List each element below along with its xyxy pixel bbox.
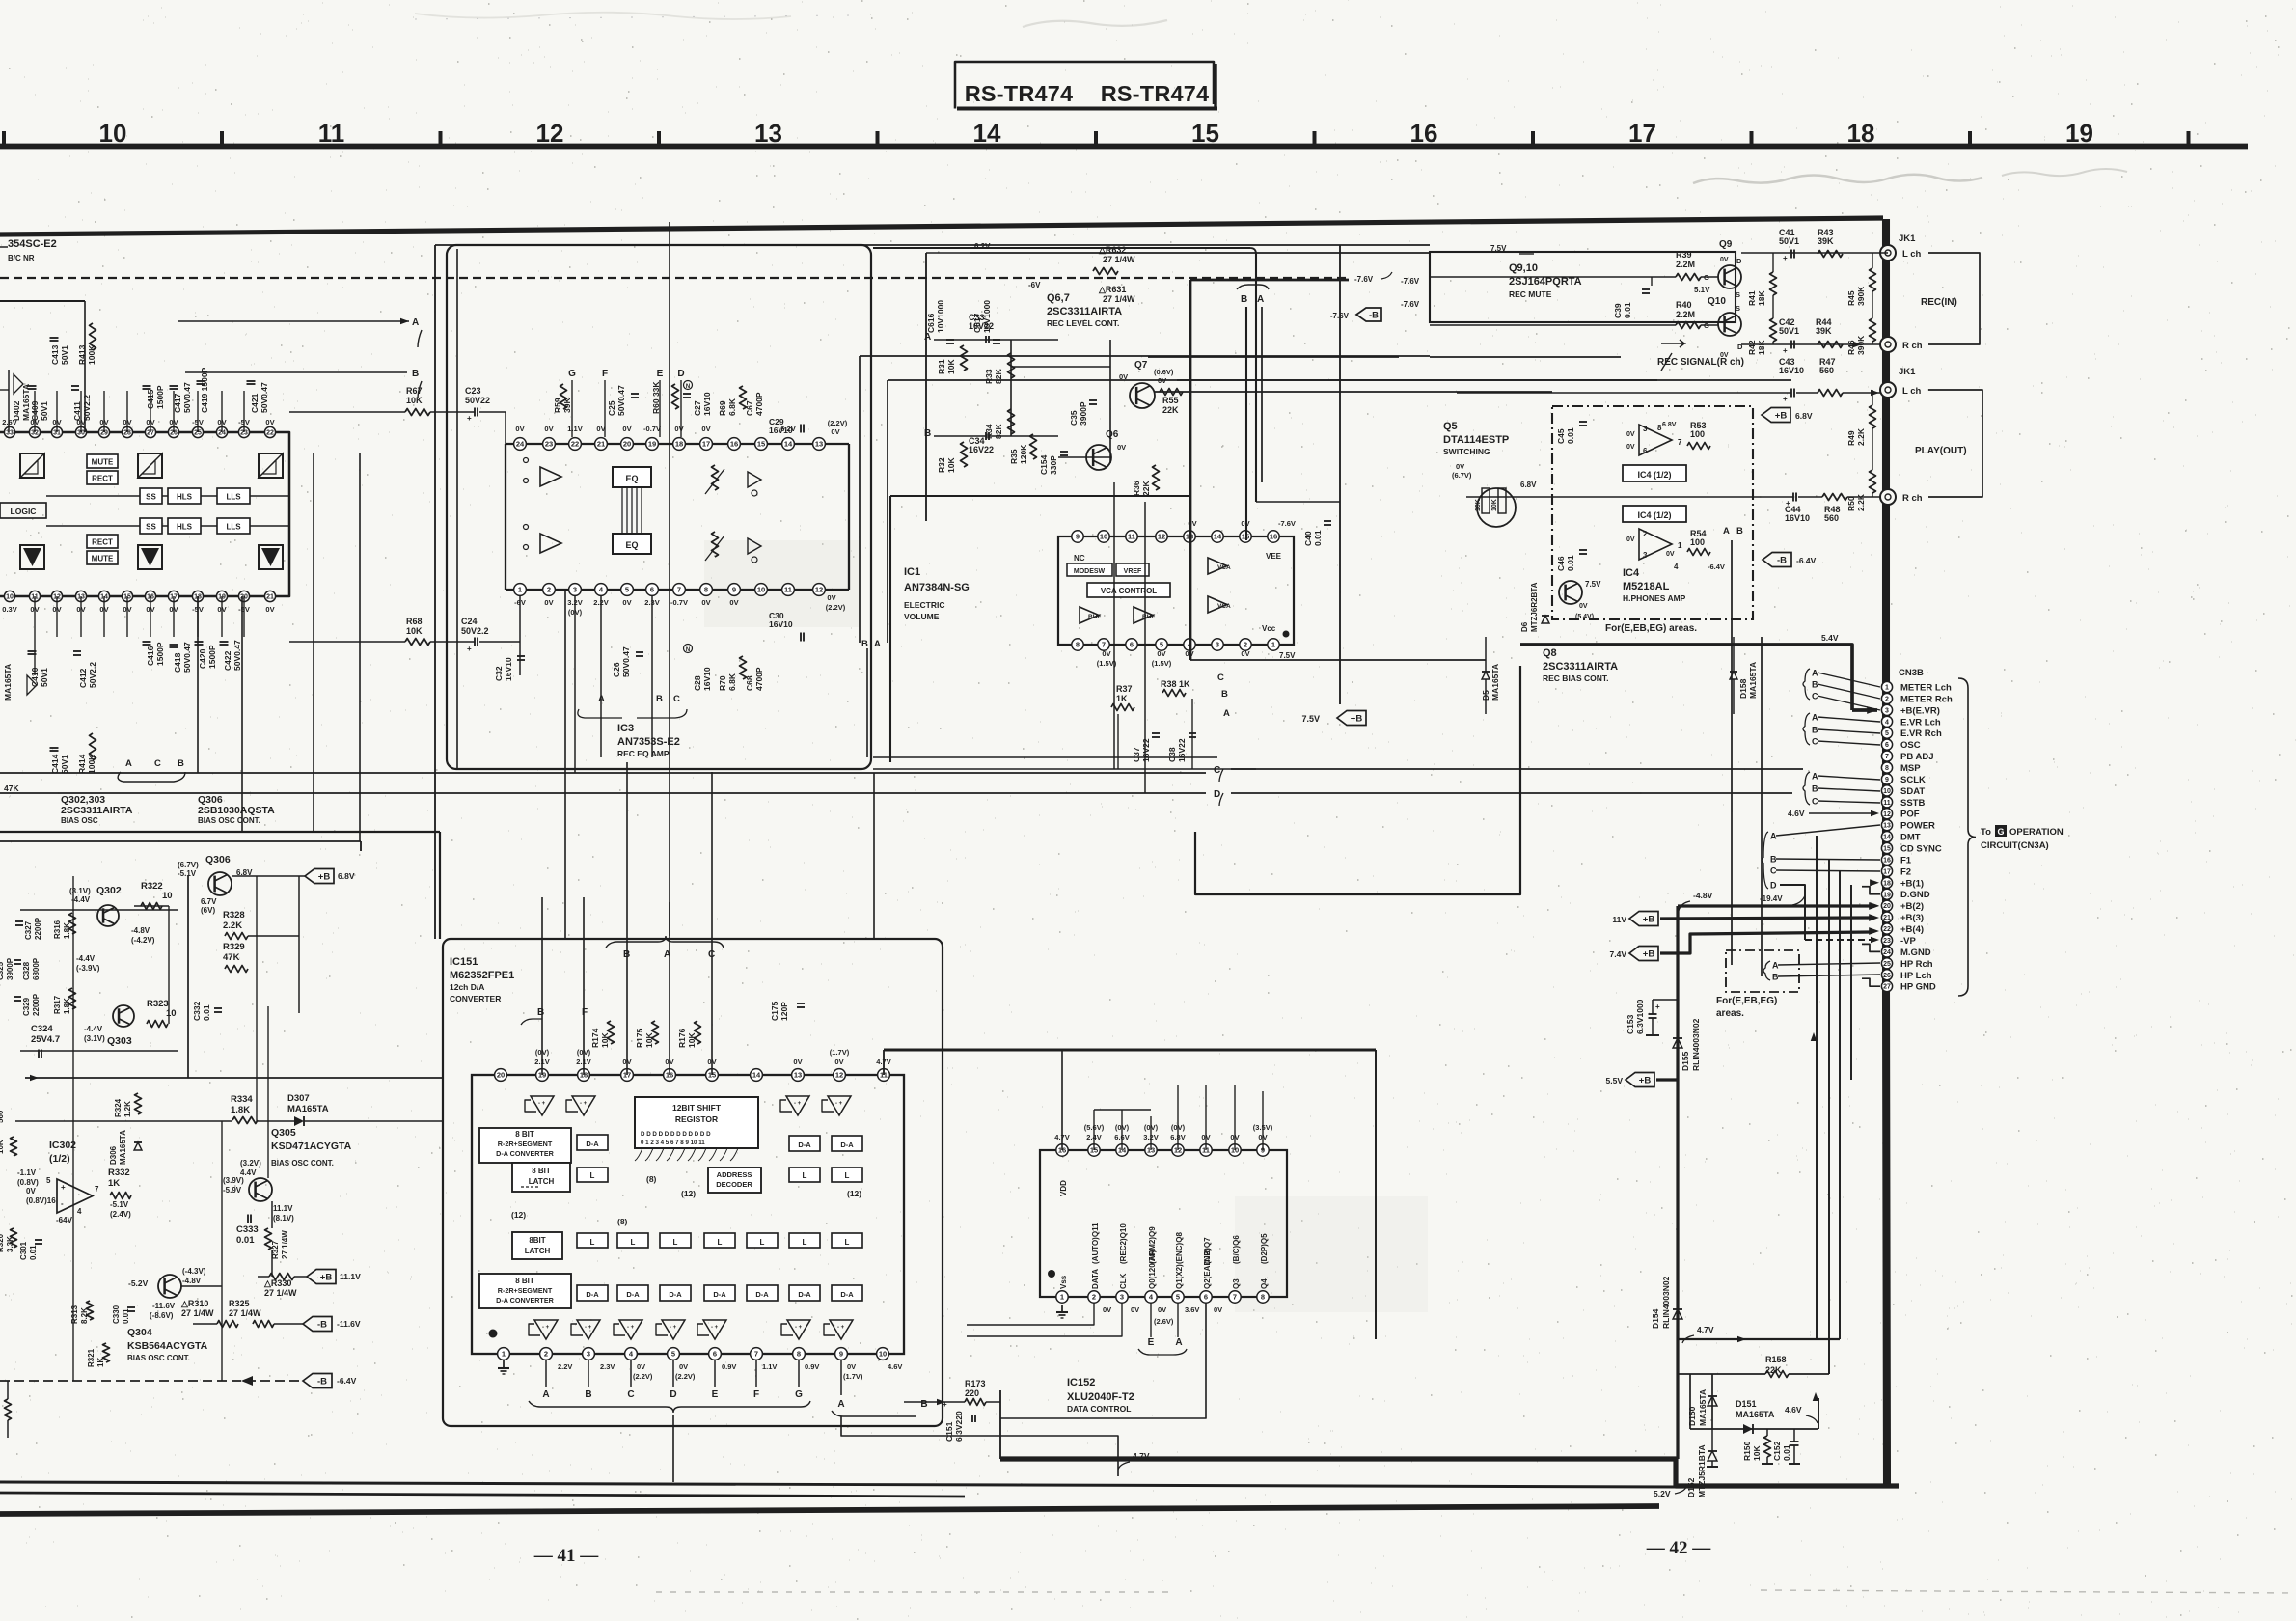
svg-text:+: +	[1786, 499, 1790, 508]
svg-text:0V: 0V	[701, 598, 710, 607]
svg-text:7: 7	[1678, 438, 1682, 447]
svg-text:A: A	[1223, 708, 1230, 719]
svg-text:C328: C328	[22, 961, 31, 980]
svg-text:-64V: -64V	[56, 1216, 73, 1224]
svg-text:RS-TR474: RS-TR474	[1101, 81, 1210, 106]
svg-text:+B(2): +B(2)	[1900, 901, 1924, 912]
svg-text:A: A	[412, 317, 419, 328]
svg-text:17: 17	[1628, 119, 1656, 148]
svg-text:4700P: 4700P	[754, 667, 764, 691]
svg-text:MUTE: MUTE	[92, 458, 114, 467]
svg-text:0V: 0V	[1579, 603, 1588, 610]
svg-text:20: 20	[1883, 903, 1891, 910]
svg-text:DATA: DATA	[1091, 1269, 1100, 1289]
svg-text:E.VR Lch: E.VR Lch	[1900, 717, 1941, 728]
svg-text:MA165TA: MA165TA	[3, 664, 13, 701]
svg-text:16V22: 16V22	[1177, 738, 1187, 762]
svg-text:-0.7V: -0.7V	[670, 598, 688, 607]
svg-text:SS: SS	[146, 523, 156, 532]
svg-text:(2.2V): (2.2V)	[633, 1372, 653, 1381]
svg-text:BIAS OSC CONT.: BIAS OSC CONT.	[127, 1354, 190, 1362]
svg-text:BIAS OSC: BIAS OSC	[61, 816, 98, 825]
svg-text:50V1: 50V1	[1779, 326, 1799, 336]
svg-text:12: 12	[1158, 533, 1165, 541]
svg-text:6.8V: 6.8V	[1795, 411, 1813, 421]
svg-text:Q6,7: Q6,7	[1047, 292, 1070, 304]
svg-text:C: C	[154, 758, 161, 769]
svg-text:(6V): (6V)	[201, 906, 215, 915]
svg-text:IC152: IC152	[1067, 1377, 1095, 1388]
svg-text:+: +	[467, 645, 472, 653]
svg-text:-6.4V: -6.4V	[1796, 556, 1817, 565]
svg-text:D-A: D-A	[840, 1290, 854, 1299]
svg-text:R ch: R ch	[1902, 493, 1923, 504]
svg-text:5.2V: 5.2V	[1654, 1489, 1671, 1498]
svg-text:10K: 10K	[644, 1032, 654, 1048]
svg-text:CIRCUIT(CN3A): CIRCUIT(CN3A)	[1981, 840, 2049, 851]
svg-text:— 41 —: — 41 —	[533, 1546, 600, 1566]
svg-text:(3.1V): (3.1V)	[84, 1034, 105, 1043]
svg-text:10K: 10K	[687, 1032, 697, 1048]
svg-text:HP Rch: HP Rch	[1900, 959, 1933, 970]
svg-text:LLS: LLS	[226, 523, 241, 532]
svg-text:6: 6	[1885, 742, 1889, 749]
svg-text:KSD471ACYGTA: KSD471ACYGTA	[271, 1140, 352, 1152]
svg-text:0V: 0V	[515, 425, 524, 433]
svg-text:D307: D307	[287, 1093, 310, 1104]
svg-text:C154: C154	[1039, 454, 1049, 475]
svg-text:B: B	[1221, 689, 1228, 700]
svg-text:+B: +B	[1643, 915, 1655, 925]
svg-text:16V10: 16V10	[702, 667, 712, 691]
svg-text:14: 14	[784, 440, 793, 449]
svg-text:S: S	[1736, 304, 1740, 313]
svg-text:△R310: △R310	[180, 1299, 208, 1308]
svg-text:39K: 39K	[1818, 236, 1834, 246]
svg-text:16V10: 16V10	[769, 619, 793, 629]
svg-text:1K: 1K	[108, 1178, 120, 1189]
svg-text:RECT: RECT	[92, 538, 113, 547]
svg-text:2: 2	[547, 586, 551, 594]
svg-text:G: G	[1997, 827, 2004, 837]
svg-text:(8): (8)	[646, 1174, 657, 1184]
svg-text:-7.6V: -7.6V	[1278, 519, 1296, 528]
svg-text:C414: C414	[50, 754, 60, 774]
svg-text:50V1: 50V1	[1779, 236, 1799, 246]
svg-text:8: 8	[704, 586, 708, 594]
svg-text:7.5V: 7.5V	[1279, 651, 1296, 660]
svg-text:F: F	[753, 1389, 759, 1400]
svg-text:HLS: HLS	[177, 493, 193, 502]
svg-text:VDD: VDD	[1059, 1180, 1068, 1196]
svg-text:B: B	[412, 369, 419, 379]
svg-text:CLK: CLK	[1119, 1273, 1128, 1289]
svg-text:C420: C420	[198, 648, 207, 669]
svg-text:3: 3	[1643, 425, 1648, 433]
svg-text:9: 9	[1076, 533, 1080, 541]
svg-text:L: L	[631, 1238, 636, 1247]
svg-text:-5.1V: -5.1V	[110, 1200, 129, 1209]
svg-text:D155: D155	[1681, 1051, 1690, 1071]
svg-text:HLS: HLS	[177, 523, 193, 532]
svg-text:R324: R324	[114, 1098, 123, 1117]
svg-text:-4.8V: -4.8V	[182, 1277, 202, 1285]
svg-text:50V22: 50V22	[465, 396, 490, 405]
svg-text:CONVERTER: CONVERTER	[450, 994, 501, 1003]
svg-text:B: B	[920, 1399, 927, 1410]
svg-text:D-A: D-A	[840, 1140, 854, 1149]
svg-text:6.2V: 6.2V	[974, 242, 991, 251]
svg-text:50V0.47: 50V0.47	[616, 385, 626, 416]
svg-text:- +: - +	[794, 1101, 802, 1107]
svg-text:0V: 0V	[1102, 649, 1110, 658]
svg-text:390K: 390K	[1856, 286, 1866, 306]
svg-text:-11.6V: -11.6V	[152, 1302, 176, 1310]
svg-text:-19.4V: -19.4V	[1760, 894, 1783, 903]
svg-text:0.01: 0.01	[1623, 302, 1632, 318]
svg-text:21: 21	[1883, 915, 1891, 921]
svg-text:C333: C333	[236, 1224, 259, 1235]
svg-text:OSC: OSC	[1900, 740, 1921, 751]
svg-text:3: 3	[573, 586, 577, 594]
svg-text:26: 26	[1883, 973, 1891, 979]
svg-text:IC1: IC1	[904, 566, 920, 578]
svg-text:4.6V: 4.6V	[1785, 1405, 1802, 1415]
svg-text:M62352FPE1: M62352FPE1	[450, 970, 514, 981]
svg-text:2SC3311AIRTA: 2SC3311AIRTA	[1047, 306, 1122, 317]
svg-text:A: A	[1175, 1337, 1182, 1348]
svg-text:DECODER: DECODER	[716, 1180, 752, 1189]
svg-text:8BIT: 8BIT	[529, 1236, 545, 1245]
svg-text:(0.8V): (0.8V)	[17, 1178, 39, 1187]
svg-text:11V: 11V	[1612, 915, 1626, 924]
svg-text:11: 11	[784, 586, 792, 594]
svg-text:R321: R321	[87, 1348, 96, 1367]
svg-text:Q4: Q4	[1260, 1278, 1269, 1289]
svg-text:E: E	[712, 1389, 719, 1400]
svg-text:R49: R49	[1846, 430, 1856, 446]
svg-text:-B: -B	[1369, 311, 1379, 321]
svg-text:50V0.47: 50V0.47	[182, 382, 192, 413]
svg-text:11: 11	[318, 119, 345, 148]
svg-text:AN7353S-E2: AN7353S-E2	[617, 736, 680, 748]
svg-text:(6.7V): (6.7V)	[178, 861, 199, 869]
svg-text:0.01: 0.01	[1313, 530, 1323, 546]
svg-text:- +: - +	[538, 1101, 546, 1107]
svg-text:D150: D150	[1687, 1406, 1697, 1426]
svg-text:10: 10	[6, 594, 14, 601]
svg-text:5.5V: 5.5V	[1606, 1076, 1624, 1085]
svg-text:2SC3311AIRTA: 2SC3311AIRTA	[1543, 661, 1618, 673]
svg-text:7: 7	[1885, 754, 1889, 760]
svg-text:- +: - +	[627, 1325, 635, 1331]
svg-text:REC(IN): REC(IN)	[1921, 297, 1957, 308]
svg-text:(5.4V): (5.4V)	[1575, 614, 1594, 620]
svg-text:D-A CONVERTER: D-A CONVERTER	[496, 1296, 554, 1305]
svg-text:0V: 0V	[265, 418, 274, 426]
svg-text:6.3V1000: 6.3V1000	[1635, 999, 1645, 1034]
svg-text:16V22: 16V22	[1141, 738, 1151, 762]
svg-text:-0.7V: -0.7V	[643, 425, 661, 433]
svg-text:B: B	[1241, 294, 1247, 305]
svg-text:11.1V: 11.1V	[340, 1272, 361, 1281]
svg-text:2.2K: 2.2K	[1856, 493, 1866, 511]
svg-text:R38 1K: R38 1K	[1161, 679, 1190, 689]
svg-text:IC4: IC4	[1623, 567, 1640, 579]
svg-text:10: 10	[99, 119, 127, 148]
svg-text:33: 33	[6, 430, 14, 437]
svg-text:R329: R329	[223, 942, 245, 952]
svg-text:10K: 10K	[1752, 1445, 1762, 1461]
svg-text:16V10: 16V10	[1785, 513, 1810, 523]
svg-text:C: C	[1217, 673, 1224, 683]
svg-text:D-A CONVERTER: D-A CONVERTER	[496, 1149, 554, 1158]
svg-text:A: A	[1723, 526, 1730, 536]
svg-text:-: -	[61, 1199, 64, 1208]
svg-text:1: 1	[1885, 685, 1889, 692]
svg-text:Vcc: Vcc	[1262, 624, 1276, 633]
svg-text:3900P: 3900P	[6, 957, 14, 980]
svg-text:EQ: EQ	[625, 474, 638, 483]
svg-text:8: 8	[797, 1350, 801, 1359]
svg-text:L: L	[803, 1171, 807, 1180]
svg-text:1500P: 1500P	[207, 645, 217, 669]
svg-text:+B: +B	[318, 872, 331, 883]
svg-text:16V10: 16V10	[769, 426, 793, 435]
svg-text:- +: - +	[670, 1325, 677, 1331]
svg-text:7: 7	[754, 1350, 758, 1359]
svg-text:0V: 0V	[637, 1362, 645, 1371]
svg-text:D-A: D-A	[669, 1290, 682, 1299]
svg-text:MA165TA: MA165TA	[287, 1104, 329, 1114]
svg-text:C413: C413	[50, 344, 60, 365]
svg-text:19: 19	[1883, 892, 1891, 898]
svg-text:C418: C418	[173, 652, 182, 673]
svg-text:220: 220	[965, 1388, 979, 1398]
svg-text:3: 3	[1643, 551, 1648, 560]
svg-text:12: 12	[1883, 811, 1891, 818]
svg-text:17: 17	[1883, 868, 1891, 875]
svg-text:VCA: VCA	[1217, 564, 1231, 571]
svg-text:+B: +B	[320, 1273, 333, 1283]
svg-text:0V: 0V	[679, 1362, 688, 1371]
svg-text:Q2(EADJ2): Q2(EADJ2)	[1203, 1249, 1212, 1289]
svg-text:(REC2)Q10: (REC2)Q10	[1119, 1223, 1128, 1264]
svg-text:F2: F2	[1900, 866, 1911, 877]
svg-text:B: B	[178, 758, 184, 769]
svg-text:4.6V: 4.6V	[888, 1362, 902, 1371]
svg-text:RECT: RECT	[92, 475, 113, 483]
svg-text:10: 10	[757, 586, 765, 594]
svg-text:C24: C24	[461, 617, 478, 626]
svg-text:(0.6V): (0.6V)	[1154, 368, 1174, 376]
svg-text:L ch: L ch	[1902, 386, 1922, 397]
svg-text:17: 17	[702, 440, 710, 449]
svg-text:50V2.2: 50V2.2	[82, 395, 92, 421]
svg-text:(2.2V): (2.2V)	[828, 419, 848, 427]
svg-text:IC4 (1/2): IC4 (1/2)	[1637, 510, 1671, 520]
svg-text:F: F	[582, 1007, 588, 1018]
svg-text:15: 15	[1883, 846, 1891, 853]
svg-text:22: 22	[571, 440, 579, 449]
svg-text:C38: C38	[1167, 747, 1177, 762]
svg-text:S: S	[1736, 290, 1740, 299]
svg-text:For(E,EB,EG): For(E,EB,EG)	[1716, 996, 1777, 1006]
svg-text:C329: C329	[22, 997, 31, 1016]
svg-text:R ch: R ch	[1902, 341, 1923, 351]
svg-text:R-2R+SEGMENT: R-2R+SEGMENT	[498, 1140, 553, 1148]
svg-text:1.2K: 1.2K	[123, 1101, 132, 1117]
svg-text:13: 13	[794, 1071, 802, 1080]
svg-text:(2.2V): (2.2V)	[675, 1372, 696, 1381]
svg-text:M.GND: M.GND	[1900, 948, 1931, 958]
svg-text:(B/C)Q6: (B/C)Q6	[1232, 1235, 1241, 1264]
svg-text:25V4.7: 25V4.7	[31, 1034, 60, 1045]
svg-text:SSTB: SSTB	[1900, 798, 1925, 809]
svg-text:0.9V: 0.9V	[805, 1362, 819, 1371]
svg-text:EQ: EQ	[625, 540, 638, 550]
svg-text:12: 12	[815, 586, 823, 594]
svg-text:100: 100	[1690, 537, 1705, 547]
svg-text:SCLK: SCLK	[1900, 775, 1926, 785]
svg-text:27 1/4W: 27 1/4W	[264, 1288, 297, 1298]
svg-text:2: 2	[1092, 1293, 1096, 1302]
svg-text:+B: +B	[1643, 949, 1655, 960]
svg-text:R320: R320	[0, 1233, 5, 1252]
svg-text:R176: R176	[677, 1028, 687, 1048]
svg-text:2.2M: 2.2M	[1676, 310, 1695, 319]
svg-text:+B: +B	[1775, 411, 1788, 422]
svg-text:LLS: LLS	[226, 493, 241, 502]
svg-text:IC302: IC302	[49, 1140, 76, 1151]
svg-text:6.8K: 6.8K	[727, 398, 737, 416]
svg-text:16: 16	[1270, 533, 1277, 541]
svg-text:MA165TA: MA165TA	[1748, 662, 1758, 699]
svg-text:0V: 0V	[265, 605, 274, 614]
svg-text:560: 560	[1819, 366, 1834, 375]
svg-text:For(E,EB,EG) areas.: For(E,EB,EG) areas.	[1605, 623, 1697, 634]
svg-text:0V: 0V	[1117, 443, 1126, 452]
svg-text:7.5V: 7.5V	[1490, 244, 1507, 253]
svg-text:A: A	[874, 639, 881, 649]
svg-text:6800P: 6800P	[32, 957, 41, 980]
svg-text:0V: 0V	[834, 1058, 843, 1066]
svg-text:2.3V: 2.3V	[600, 1362, 615, 1371]
svg-text:-4.8V: -4.8V	[1693, 891, 1713, 900]
svg-text:CN3B: CN3B	[1899, 668, 1924, 678]
svg-text:(1/2): (1/2)	[49, 1153, 70, 1165]
svg-text:Q303: Q303	[107, 1035, 132, 1047]
svg-text:22K: 22K	[1162, 405, 1179, 415]
svg-text:18K: 18K	[1757, 340, 1766, 355]
svg-text:Q3: Q3	[1232, 1278, 1241, 1289]
svg-text:120P: 120P	[779, 1002, 789, 1021]
svg-text:BUF: BUF	[1088, 614, 1101, 620]
svg-text:16V10: 16V10	[504, 657, 513, 681]
svg-text:C26: C26	[612, 662, 621, 677]
svg-text:6: 6	[1643, 447, 1648, 455]
svg-text:VCA: VCA	[1217, 603, 1231, 610]
svg-text:C45: C45	[1556, 428, 1566, 444]
svg-text:L: L	[760, 1238, 765, 1247]
svg-text:16: 16	[1883, 857, 1891, 864]
svg-text:8 BIT: 8 BIT	[532, 1167, 551, 1175]
svg-text:C23: C23	[465, 386, 481, 396]
svg-text:2200P: 2200P	[34, 917, 42, 940]
svg-text:C: C	[627, 1389, 634, 1400]
svg-text:B: B	[1736, 526, 1743, 536]
svg-text:-B: -B	[317, 1377, 327, 1387]
svg-text:MA165TA: MA165TA	[1698, 1389, 1708, 1426]
svg-text:8 BIT: 8 BIT	[515, 1130, 534, 1139]
svg-text:C32: C32	[494, 666, 504, 681]
svg-text:5.1V: 5.1V	[1694, 286, 1710, 294]
svg-text:0V: 0V	[544, 425, 553, 433]
svg-text:50V1: 50V1	[40, 668, 49, 687]
svg-text:10: 10	[1100, 533, 1107, 541]
svg-text:50V0.47: 50V0.47	[260, 382, 269, 413]
svg-text:R68: R68	[406, 617, 423, 626]
svg-text:A: A	[837, 1399, 844, 1410]
svg-text:VCA CONTROL: VCA CONTROL	[1101, 587, 1157, 595]
svg-text:15: 15	[757, 440, 765, 449]
svg-text:0V: 0V	[1456, 462, 1464, 471]
svg-text:+: +	[467, 414, 472, 423]
svg-text:L: L	[803, 1238, 807, 1247]
svg-text:C301: C301	[19, 1241, 28, 1260]
svg-text:R173: R173	[965, 1379, 986, 1388]
svg-text:B: B	[1812, 726, 1818, 735]
svg-text:0V: 0V	[831, 427, 839, 436]
svg-text:D152: D152	[1686, 1477, 1696, 1497]
svg-text:2200P: 2200P	[32, 993, 41, 1016]
svg-text:Q0(120/70): Q0(120/70)	[1148, 1250, 1157, 1289]
svg-text:RLIN4003N02: RLIN4003N02	[1691, 1018, 1701, 1071]
svg-text:13: 13	[815, 440, 823, 449]
svg-text:1.8K: 1.8K	[231, 1105, 250, 1115]
svg-text:D-A: D-A	[586, 1140, 599, 1148]
svg-text:A: A	[1812, 713, 1818, 723]
svg-text:A: A	[125, 758, 132, 769]
svg-text:— 42 —: — 42 —	[1646, 1538, 1712, 1558]
svg-text:0V: 0V	[1720, 257, 1729, 263]
svg-text:R39: R39	[1676, 250, 1692, 260]
svg-text:4: 4	[1885, 719, 1889, 726]
svg-text:0V: 0V	[847, 1362, 856, 1371]
svg-text:B: B	[656, 694, 663, 704]
svg-text:1: 1	[1271, 641, 1275, 649]
svg-text:SWITCHING: SWITCHING	[1443, 447, 1490, 456]
svg-text:C332: C332	[192, 1001, 202, 1021]
svg-text:R328: R328	[223, 910, 245, 920]
svg-text:12: 12	[536, 119, 564, 148]
svg-text:DATA CONTROL: DATA CONTROL	[1067, 1404, 1131, 1414]
svg-text:-7.6V: -7.6V	[1354, 275, 1374, 284]
svg-text:3.6V: 3.6V	[1185, 1305, 1199, 1314]
svg-text:7.5V: 7.5V	[1301, 714, 1320, 724]
svg-text:C: C	[1214, 765, 1220, 776]
svg-text:10: 10	[162, 891, 173, 901]
svg-text:C152: C152	[1772, 1441, 1782, 1461]
svg-text:A: A	[1772, 961, 1779, 971]
svg-text:0V: 0V	[622, 425, 631, 433]
svg-text:R325: R325	[229, 1299, 250, 1308]
svg-text:L: L	[673, 1238, 678, 1247]
svg-text:G: G	[568, 369, 576, 379]
svg-text:R45: R45	[1846, 290, 1856, 306]
svg-text:(6.7V): (6.7V)	[1452, 471, 1472, 480]
svg-text:MA165TA: MA165TA	[1490, 664, 1500, 701]
